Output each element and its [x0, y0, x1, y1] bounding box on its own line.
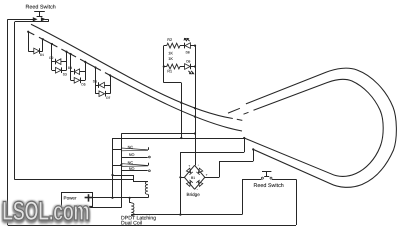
wire indicator left vertical — [163, 46, 165, 83]
svg-text:Reed Switch: Reed Switch — [254, 183, 284, 189]
wire rail feeder vertical — [180, 152, 182, 215]
wire bottom bus — [8, 225, 296, 227]
bridge diode top-left — [186, 168, 191, 173]
svg-text:Bridge: Bridge — [187, 192, 201, 197]
wire coil2 bottom bus — [131, 214, 242, 216]
wire bridge left stub — [180, 177, 184, 179]
reed switch SW1 contacts — [8, 19, 34, 21]
svg-text:-: - — [198, 163, 199, 167]
node tap on rail U — [180, 102, 182, 104]
node rail L at x195 — [194, 116, 196, 118]
svg-text:D4: D4 — [68, 66, 72, 70]
diodes D6 D7 across rail gap 4 — [94, 66, 96, 68]
node bridge left junction — [179, 176, 181, 178]
wire bridge right staircase — [205, 177, 219, 179]
node rail U at x195 — [194, 107, 196, 109]
wire coil1 feed — [113, 175, 134, 177]
diodes D4 D5 across rail gap 3 — [70, 53, 72, 55]
svg-text:B1: B1 — [191, 176, 195, 180]
svg-text:R1: R1 — [167, 69, 172, 73]
diodes D2 D3 across rail gap 2 — [51, 43, 53, 45]
wire indicator bottom — [164, 82, 182, 84]
svg-text:+: + — [188, 164, 190, 168]
svg-text:Dual Coil: Dual Coil — [121, 220, 142, 226]
wire left outer vertical — [7, 19, 9, 225]
node loop feeder 1 — [243, 137, 245, 139]
svg-text:D8: D8 — [186, 50, 190, 54]
node rail feeder to coil bus — [179, 214, 181, 216]
svg-text:D1: D1 — [40, 53, 44, 57]
rail loop inner entry gapped — [244, 112, 249, 114]
node bus y138 tap — [180, 137, 182, 139]
LED D8 — [184, 43, 186, 49]
wire SW1 right terminal drop — [48, 19, 50, 22]
resistor R1 — [167, 64, 180, 69]
svg-text:D2: D2 — [49, 56, 53, 60]
bridge diode bottom-left — [186, 182, 191, 187]
wire power minus — [93, 207, 122, 209]
bridge diode top-right — [198, 168, 203, 173]
rail lower insulated gaps — [34, 35, 39, 37]
svg-text:1K: 1K — [168, 52, 173, 56]
power supply box — [62, 193, 93, 208]
watermark LSOL.com — [2, 196, 89, 227]
svg-text:Reed Switch: Reed Switch — [26, 4, 56, 10]
bridge diode bottom-right — [198, 182, 203, 187]
wire frame bottom — [15, 179, 133, 181]
reed switch SW2 actuator — [262, 171, 271, 173]
node Va bottom — [111, 197, 113, 199]
bridge rectifier B1 outline — [195, 165, 205, 177]
wire R2 to LED — [164, 45, 167, 47]
relay coil 1 — [145, 182, 148, 195]
wire bus y138 to loop feeder — [113, 138, 245, 140]
wire SW2 right — [296, 179, 298, 225]
rail upper (main track) — [31, 24, 233, 118]
wire common vertical Vb — [121, 134, 123, 208]
rail lower (main track) — [28, 32, 242, 131]
wire power plus bus — [92, 197, 148, 199]
reed switch SW1 actuator — [34, 11, 45, 13]
svg-text:-: - — [197, 187, 198, 191]
diode D1 across rail gap 1 — [27, 31, 29, 33]
node indicator top right — [194, 45, 196, 47]
svg-text:+: + — [206, 173, 208, 177]
node Va y175 — [111, 174, 113, 176]
reed switch SW2 contacts — [242, 179, 261, 181]
wire top inner horizontal — [15, 21, 49, 23]
svg-text:D6: D6 — [93, 80, 97, 84]
rail loop outer — [246, 68, 396, 187]
wire left inner vertical — [14, 22, 16, 180]
svg-text:R2: R2 — [167, 38, 172, 42]
wire R1 branch — [164, 66, 167, 68]
relay contact NC2 — [113, 165, 122, 167]
LED D9 — [185, 64, 191, 70]
wire loop feeder 1 staircase — [244, 138, 246, 152]
node indicator bottom left — [163, 65, 165, 67]
wire bus y133 — [121, 133, 195, 135]
svg-text:D5: D5 — [81, 83, 85, 87]
wire indicator tap to lower rail — [181, 83, 183, 138]
wire SW2 left — [242, 179, 244, 214]
rail loop inner — [244, 79, 383, 176]
node coil2 tap — [129, 197, 131, 199]
svg-text:D7: D7 — [106, 96, 110, 100]
relay contact NC1 — [113, 149, 122, 151]
wire coil2 top lead — [129, 198, 131, 203]
svg-text:D3: D3 — [63, 73, 67, 77]
relay coil 2 — [131, 203, 134, 216]
svg-text:NO: NO — [129, 153, 135, 157]
node indicator bottom right — [194, 65, 196, 67]
svg-text:D9: D9 — [186, 60, 190, 64]
node at bus junction — [194, 132, 196, 134]
power plus terminal — [85, 197, 93, 199]
wire pole vertical Va — [112, 138, 114, 198]
resistor R2 — [167, 43, 180, 48]
power minus terminal — [89, 206, 92, 208]
rail loop outer entry gapped — [228, 108, 240, 113]
svg-text:1K: 1K — [168, 57, 173, 61]
node loop feeder 2 — [252, 148, 254, 150]
wire indicator right vertical to bridge — [195, 46, 197, 166]
